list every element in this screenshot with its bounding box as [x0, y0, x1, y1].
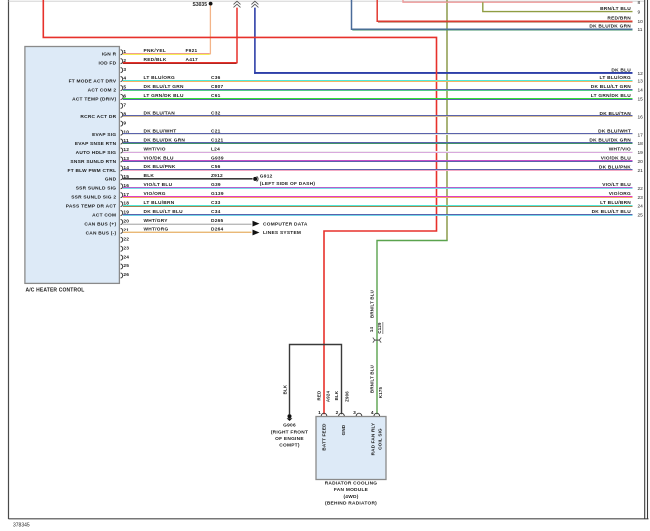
svg-text:DK BLU/WHT: DK BLU/WHT	[144, 129, 177, 135]
svg-text:DK BLU/DK GRN: DK BLU/DK GRN	[589, 24, 631, 30]
svg-text:15: 15	[638, 97, 644, 103]
svg-text:DK BLU/LT GRN: DK BLU/LT GRN	[144, 84, 184, 90]
svg-text:DK BLU/WHT: DK BLU/WHT	[598, 129, 631, 135]
svg-text:DK BLU/PNK: DK BLU/PNK	[599, 164, 631, 170]
svg-text:(LEFT SIDE OF DASH): (LEFT SIDE OF DASH)	[260, 181, 316, 187]
svg-text:WHT/VIO: WHT/VIO	[144, 146, 166, 152]
svg-text:BLK: BLK	[144, 173, 155, 179]
svg-text:LT GRN/DK BLU: LT GRN/DK BLU	[591, 93, 631, 99]
svg-text:A417: A417	[186, 57, 199, 63]
svg-text:(BEHIND RADIATOR): (BEHIND RADIATOR)	[325, 500, 377, 506]
svg-text:BATT FEED: BATT FEED	[321, 423, 326, 451]
svg-text:C32: C32	[211, 111, 221, 117]
svg-text:DK BLU/TAN: DK BLU/TAN	[144, 111, 176, 117]
svg-text:25: 25	[638, 213, 644, 219]
svg-text:Z912: Z912	[211, 173, 223, 179]
svg-text:1: 1	[318, 410, 321, 416]
svg-text:COIL SIG: COIL SIG	[377, 428, 382, 450]
svg-text:4: 4	[371, 410, 374, 416]
svg-text:DK BLU: DK BLU	[611, 67, 631, 73]
svg-text:DK BLU/DK GRN: DK BLU/DK GRN	[589, 138, 631, 144]
svg-text:RADIATOR COOLING: RADIATOR COOLING	[325, 481, 378, 487]
svg-text:14: 14	[369, 327, 374, 333]
svg-text:DK BLU/LT BLU: DK BLU/LT BLU	[592, 209, 632, 215]
svg-text:19: 19	[638, 150, 644, 156]
svg-text:16: 16	[638, 114, 644, 120]
svg-text:L24: L24	[211, 146, 220, 152]
svg-text:LT BLU/BRN: LT BLU/BRN	[600, 200, 631, 206]
svg-text:WHT/GRY: WHT/GRY	[144, 218, 169, 224]
svg-text:BLK: BLK	[282, 384, 287, 394]
svg-text:7: 7	[123, 103, 126, 109]
svg-text:G912: G912	[260, 173, 273, 179]
svg-text:FAN MODULE: FAN MODULE	[334, 487, 369, 493]
svg-text:C56: C56	[211, 164, 221, 170]
svg-text:11: 11	[638, 27, 643, 33]
svg-text:A924: A924	[325, 390, 330, 402]
svg-text:17: 17	[638, 132, 644, 138]
svg-text:26: 26	[123, 272, 129, 278]
svg-text:10: 10	[638, 19, 644, 25]
svg-text:CAN BUS (-): CAN BUS (-)	[86, 230, 117, 236]
svg-text:GND: GND	[105, 177, 117, 183]
svg-text:22: 22	[123, 236, 129, 242]
svg-text:COMPT): COMPT)	[279, 443, 300, 449]
svg-text:9: 9	[123, 120, 126, 126]
svg-text:VIO/DK BLU: VIO/DK BLU	[144, 155, 175, 161]
svg-text:3: 3	[353, 410, 356, 416]
svg-text:SSR SUNLD SIG: SSR SUNLD SIG	[76, 186, 117, 192]
svg-text:K175: K175	[378, 386, 383, 398]
svg-text:9: 9	[638, 10, 641, 16]
svg-text:VIO/ORG: VIO/ORG	[144, 191, 166, 197]
svg-text:GND: GND	[341, 424, 346, 435]
svg-text:VIO/ORG: VIO/ORG	[609, 191, 631, 197]
svg-text:DK BLU/LT BLU: DK BLU/LT BLU	[144, 209, 184, 215]
svg-text:DK BLU/PNK: DK BLU/PNK	[144, 164, 176, 170]
svg-text:20: 20	[638, 159, 644, 165]
svg-text:RED/BRN: RED/BRN	[607, 16, 631, 22]
svg-text:LT BLU/ORG: LT BLU/ORG	[600, 75, 631, 81]
svg-text:CAN BUS (+): CAN BUS (+)	[84, 221, 116, 227]
svg-text:ACT COM 2: ACT COM 2	[88, 87, 117, 93]
svg-text:VIO/LT BLU: VIO/LT BLU	[144, 182, 173, 188]
svg-text:C61: C61	[211, 93, 221, 99]
svg-text:F921: F921	[186, 48, 198, 54]
svg-text:23: 23	[638, 195, 644, 201]
svg-text:FT MODE ACT DRV: FT MODE ACT DRV	[69, 79, 117, 85]
svg-text:BRN/LT BLU: BRN/LT BLU	[600, 6, 631, 12]
svg-text:378345: 378345	[13, 523, 30, 529]
svg-text:12: 12	[638, 71, 644, 77]
svg-text:IOD FD: IOD FD	[99, 61, 117, 67]
svg-text:C129: C129	[377, 322, 382, 334]
svg-text:21: 21	[638, 168, 644, 174]
svg-text:C121: C121	[211, 137, 224, 143]
svg-text:Z906: Z906	[344, 391, 349, 402]
svg-text:22: 22	[638, 186, 644, 192]
svg-text:C34: C34	[211, 209, 221, 215]
svg-text:COMPUTER DATA: COMPUTER DATA	[263, 221, 308, 227]
svg-text:G39: G39	[211, 182, 221, 188]
svg-text:EVAP SNSE RTN: EVAP SNSE RTN	[75, 141, 117, 147]
svg-text:RCRC ACT DR: RCRC ACT DR	[80, 114, 116, 120]
svg-text:S3035: S3035	[193, 2, 208, 8]
svg-text:ACT COM: ACT COM	[92, 212, 116, 218]
svg-text:PASS TEMP DR ACT: PASS TEMP DR ACT	[66, 204, 117, 210]
svg-text:LT GRN/DK BLU: LT GRN/DK BLU	[144, 93, 184, 99]
svg-text:G139: G139	[211, 191, 224, 197]
svg-text:OF ENGINE: OF ENGINE	[275, 436, 304, 442]
svg-text:23: 23	[123, 245, 129, 251]
svg-text:LT BLU/ORG: LT BLU/ORG	[144, 75, 175, 81]
svg-text:RAD FAN RLY: RAD FAN RLY	[370, 423, 375, 456]
svg-text:A/C HEATER CONTROL: A/C HEATER CONTROL	[26, 288, 85, 294]
svg-text:PNK/YEL: PNK/YEL	[144, 48, 167, 54]
svg-text:D265: D265	[211, 218, 224, 224]
svg-text:LINES SYSTEM: LINES SYSTEM	[263, 230, 301, 236]
svg-text:VIO/DK BLU: VIO/DK BLU	[601, 156, 632, 162]
svg-text:G939: G939	[211, 155, 224, 161]
svg-text:VIO/LT BLU: VIO/LT BLU	[602, 182, 631, 188]
svg-text:AUTO HDLP SIG: AUTO HDLP SIG	[76, 150, 117, 156]
svg-text:BRN/LT BLU: BRN/LT BLU	[370, 365, 375, 393]
svg-text:DK BLU/LT GRN: DK BLU/LT GRN	[591, 84, 631, 90]
svg-text:SSR SUNLD SIG 2: SSR SUNLD SIG 2	[71, 195, 116, 201]
svg-text:EVAP SIG: EVAP SIG	[92, 132, 116, 138]
svg-text:BRN/LT BLU: BRN/LT BLU	[370, 290, 375, 318]
svg-text:(RIGHT FRONT: (RIGHT FRONT	[271, 429, 308, 435]
svg-text:24: 24	[638, 204, 644, 210]
svg-text:18: 18	[638, 141, 644, 147]
svg-text:C33: C33	[211, 200, 221, 206]
svg-text:BLK: BLK	[334, 390, 339, 400]
svg-text:2: 2	[336, 410, 339, 416]
svg-text:8: 8	[638, 0, 641, 6]
svg-text:24: 24	[123, 254, 129, 260]
svg-text:G906: G906	[283, 423, 296, 429]
svg-text:13: 13	[638, 79, 644, 85]
svg-text:25: 25	[123, 263, 129, 269]
svg-text:3: 3	[123, 67, 126, 73]
svg-text:SNSR SUNLD RTN: SNSR SUNLD RTN	[70, 159, 116, 165]
svg-text:RED/BLK: RED/BLK	[144, 57, 167, 63]
svg-text:ACT TEMP (DRIV): ACT TEMP (DRIV)	[72, 96, 116, 102]
svg-text:C807: C807	[211, 84, 224, 90]
svg-text:IGN R: IGN R	[102, 52, 117, 58]
svg-text:C21: C21	[211, 129, 221, 135]
svg-text:14: 14	[638, 88, 644, 94]
svg-text:LT BLU/BRN: LT BLU/BRN	[144, 200, 175, 206]
svg-text:DK BLU/TAN: DK BLU/TAN	[600, 111, 632, 117]
svg-text:DK BLU/DK GRN: DK BLU/DK GRN	[144, 137, 186, 143]
svg-text:D264: D264	[211, 227, 224, 233]
svg-text:C36: C36	[211, 75, 221, 81]
svg-text:FT BLW PWM CTRL: FT BLW PWM CTRL	[68, 168, 117, 174]
svg-text:WHT/ORG: WHT/ORG	[144, 227, 169, 233]
svg-text:(4WD): (4WD)	[343, 494, 358, 500]
svg-text:WHT/VIO: WHT/VIO	[609, 147, 631, 153]
svg-text:RED: RED	[317, 391, 322, 401]
